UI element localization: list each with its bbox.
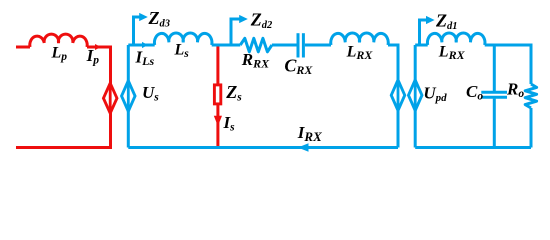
- svg-text:Us: Us: [142, 83, 159, 104]
- svg-text:Co: Co: [466, 82, 483, 103]
- svg-text:RRX: RRX: [241, 50, 270, 71]
- svg-text:ILs: ILs: [135, 48, 155, 69]
- svg-text:LRX: LRX: [346, 44, 374, 63]
- svg-text:Ls: Ls: [174, 42, 190, 61]
- svg-text:Ro: Ro: [506, 80, 524, 101]
- svg-text:Lp: Lp: [51, 45, 68, 64]
- svg-text:IRX: IRX: [297, 123, 322, 144]
- svg-text:Zd3: Zd3: [148, 8, 171, 30]
- svg-text:Is: Is: [223, 113, 236, 134]
- svg-text:CRX: CRX: [284, 56, 313, 78]
- svg-text:Ip: Ip: [86, 46, 100, 67]
- svg-text:LRX: LRX: [438, 44, 466, 63]
- svg-text:Zd1: Zd1: [435, 11, 458, 33]
- svg-text:Zd2: Zd2: [250, 9, 273, 31]
- svg-text:Zs: Zs: [225, 82, 242, 104]
- svg-text:Upd: Upd: [423, 84, 447, 105]
